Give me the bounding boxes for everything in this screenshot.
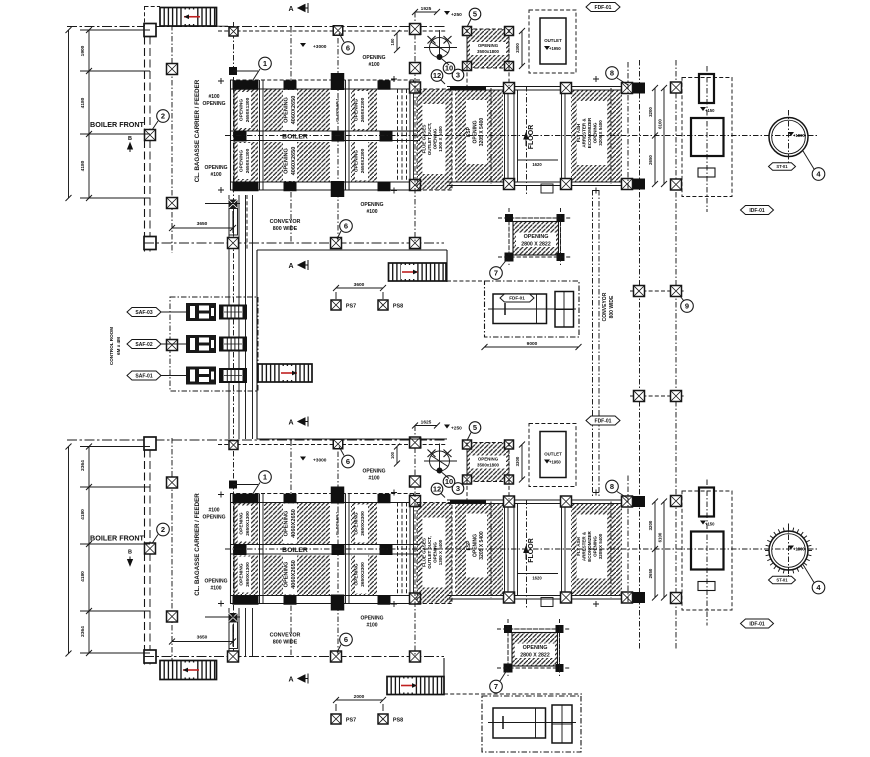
- svg-text:BOILER FRONT: BOILER FRONT: [90, 534, 145, 543]
- label flue gases outlet duct: [423, 104, 446, 174]
- svg-text:4060X2650: 4060X2650: [291, 96, 297, 125]
- dimension 3300: [521, 31, 523, 66]
- svg-text:ARRESTER &: ARRESTER &: [582, 118, 587, 148]
- column chain x338: [333, 26, 343, 36]
- label opening 2650x1300 upper: [238, 506, 251, 542]
- svg-text:CONVEYOR: CONVEYOR: [270, 219, 301, 225]
- hatch cell 2650x1300 lower: [234, 142, 258, 182]
- svg-text:800 WIDE: 800 WIDE: [609, 295, 615, 318]
- label FDF-01 hexagon: [586, 3, 620, 12]
- dimension chain left 1900/4180/4180: [88, 30, 90, 198]
- wire bottom boundary step: [443, 658, 445, 694]
- node grid bubble 1: [253, 69, 260, 80]
- wire opening 2800 stubs lower: [507, 619, 509, 676]
- wire grid line x338: [337, 441, 339, 657]
- svg-text:3300: 3300: [515, 43, 520, 53]
- svg-text:2650X2300: 2650X2300: [360, 511, 366, 536]
- svg-text:OPENING: OPENING: [239, 512, 245, 534]
- column W1 left-top: [144, 24, 156, 37]
- hatch cell 2650x1300 upper: [234, 503, 258, 544]
- svg-text:3200: 3200: [648, 520, 653, 530]
- svg-text:FLY ASH: FLY ASH: [576, 124, 581, 143]
- svg-text:#100: #100: [366, 623, 377, 629]
- svg-text:+150: +150: [705, 522, 715, 527]
- hatch cell 2650x1300 lower: [234, 556, 258, 596]
- column X x415 fan bottom: [410, 63, 421, 74]
- node level +150: [700, 521, 706, 525]
- bagasse chute rect: [229, 622, 238, 649]
- column conveyor row x233: [228, 238, 239, 249]
- column W2 left-bottom: [144, 237, 156, 250]
- column X end top a: [622, 496, 633, 507]
- node level mark +3000: [300, 43, 306, 47]
- wire conveyor rails x229/x239: [228, 195, 230, 439]
- svg-text:OPENING: OPENING: [360, 616, 383, 622]
- svg-text:8: 8: [610, 482, 614, 491]
- label opening 4060x2650 lower: [283, 555, 297, 595]
- wire bagasse building line left lower: [145, 438, 151, 666]
- columns opening 2800 corners upper: [505, 214, 513, 222]
- hatch cell 2650x2300 lower: [351, 142, 377, 182]
- svg-text:4180: 4180: [80, 160, 86, 171]
- FDF fan block upper: [485, 281, 580, 337]
- svg-text:3205 X 5400: 3205 X 5400: [479, 531, 485, 560]
- svg-text:A: A: [288, 263, 293, 270]
- wire opening 2800 stubs upper: [508, 208, 510, 265]
- node grid bubbles 12 3 10: [441, 80, 445, 84]
- svg-text:+1950: +1950: [549, 460, 561, 465]
- dimension 3650: [172, 641, 233, 643]
- svg-text:4180: 4180: [80, 571, 86, 582]
- beam vertical x514-517 floor left: [513, 90, 515, 182]
- svg-text:OPENING: OPENING: [354, 512, 360, 534]
- svg-text:6: 6: [346, 457, 350, 466]
- label +1800: [788, 132, 794, 136]
- column X floor left bottom: [504, 179, 515, 190]
- node level +250: [444, 425, 450, 429]
- column X floor left bottom: [504, 592, 515, 603]
- column grid-2 boiler front: [145, 543, 156, 554]
- wire floor boundary bottom y439: [257, 438, 447, 440]
- label FDF-01 hexagon: [586, 416, 620, 425]
- svg-text:#100: #100: [210, 586, 221, 592]
- svg-text:2650X1300: 2650X1300: [245, 562, 251, 587]
- svg-text:2: 2: [161, 112, 165, 121]
- svg-text:100: 100: [390, 38, 395, 46]
- svg-text:ARRESTER &: ARRESTER &: [582, 531, 587, 561]
- node grid bubble 8: [617, 78, 628, 85]
- label opening 4060x2650 upper: [283, 90, 297, 130]
- svg-text:CL BOILER 1: CL BOILER 1: [336, 512, 340, 536]
- column end bottom b: [633, 592, 645, 603]
- hatch opening 3500x1800: [467, 29, 509, 68]
- svg-text:2650X2300: 2650X2300: [360, 97, 366, 122]
- svg-text:+1950: +1950: [549, 46, 561, 51]
- svg-text:IDF-01: IDF-01: [749, 208, 765, 214]
- svg-text:1620: 1620: [532, 162, 542, 167]
- label FDF-01 in block: [500, 294, 534, 302]
- svg-text:2800 X 2822: 2800 X 2822: [521, 242, 551, 248]
- node grid bubble 6 top: [339, 447, 344, 456]
- label SAF-01 hexagon: [127, 371, 161, 380]
- svg-text:3205 X 5400: 3205 X 5400: [598, 120, 603, 146]
- svg-text:OPENING: OPENING: [239, 563, 245, 585]
- svg-text:CONVEYOR: CONVEYOR: [270, 633, 301, 639]
- label opening 2650x1300 lower: [238, 143, 251, 179]
- column conveyor row x336: [331, 238, 342, 249]
- equipment enclosure dashed: [682, 78, 732, 197]
- beam vertical x411: [409, 80, 411, 190]
- node grid bubble 4: [803, 565, 814, 583]
- svg-text:FLOOR: FLOOR: [528, 538, 535, 563]
- wire grid line x641: [639, 60, 641, 650]
- beam vertical x505-508: [504, 500, 506, 600]
- boiler unit 2 (bottom): [66, 416, 825, 684]
- svg-text:OPENING: OPENING: [284, 511, 290, 537]
- wire opening stubs: [466, 29, 468, 86]
- label SAF-03 hexagon: [127, 308, 161, 317]
- svg-text:BOILER: BOILER: [282, 547, 308, 554]
- column X floor right top: [561, 496, 572, 507]
- hatch flue gases outlet duct: [417, 89, 452, 190]
- svg-text:+1800: +1800: [793, 547, 805, 552]
- svg-text:6: 6: [344, 635, 348, 644]
- label fly ash economizer: [577, 101, 607, 165]
- screw feeder SAF-01: [220, 369, 246, 382]
- column X floor left top: [504, 83, 515, 94]
- svg-text:PS7: PS7: [346, 718, 356, 724]
- columns grid x639/x676 row y396: [630, 395, 685, 397]
- wire feeder rails x245/x252: [245, 195, 247, 439]
- wire grid line x676: [675, 60, 677, 650]
- column X right of left section bottom: [410, 593, 421, 604]
- stair bottom-mid: [387, 677, 444, 695]
- svg-text:+3000: +3000: [313, 44, 327, 50]
- svg-text:+250: +250: [451, 12, 462, 18]
- column X floor right top: [561, 83, 572, 94]
- column X x415 fan top: [410, 437, 421, 448]
- column X end bottom a: [622, 592, 633, 603]
- label flue gases outlet duct: [423, 518, 446, 588]
- column X-172a: [167, 477, 178, 488]
- svg-text:4060X2650: 4060X2650: [291, 147, 297, 176]
- svg-text:3: 3: [456, 484, 460, 493]
- wire bagasse building line left: [145, 25, 151, 253]
- label opening 2800x2822 upper: [516, 233, 556, 248]
- beam vertical x411: [409, 494, 411, 604]
- column X floor left top: [504, 496, 515, 507]
- svg-text:9000: 9000: [527, 341, 538, 347]
- wire grid line x291: [290, 441, 292, 657]
- dimension chain left 2364/4180/4180/2364: [88, 447, 90, 654]
- label opening 3500x1800: [470, 456, 506, 469]
- label +1800: [788, 546, 794, 550]
- svg-text:OPENING: OPENING: [204, 579, 227, 585]
- fan symbol: [430, 451, 450, 471]
- node grid bubble 5: [467, 433, 471, 441]
- columns opening corners: [463, 27, 472, 36]
- node grid bubble 7 upper: [500, 258, 508, 268]
- svg-text:A: A: [288, 677, 293, 684]
- svg-text:OPENING: OPENING: [478, 43, 499, 48]
- beam dashed cell x393-410: [397, 89, 399, 182]
- wire grid line x338: [337, 27, 339, 243]
- svg-text:CL. BAGASSE CARRIER / FEEDER: CL. BAGASSE CARRIER / FEEDER: [194, 493, 201, 596]
- wire conveyor row line: [144, 242, 444, 244]
- svg-text:OPENING: OPENING: [593, 122, 598, 143]
- machine block SAF-03: [186, 303, 216, 321]
- wire head col row dash line: [218, 444, 447, 446]
- svg-text:4180: 4180: [80, 97, 86, 108]
- control room dashed outline: [170, 297, 258, 391]
- wire grid line x611: [610, 88, 612, 184]
- column small bagasse x233 row3: [229, 200, 238, 209]
- dimension 1620 floor: [518, 573, 559, 575]
- dimension 3200/2650 right: [654, 88, 656, 184]
- wire grid x415 upper stub: [414, 12, 416, 243]
- svg-text:6M x 4M: 6M x 4M: [116, 337, 121, 355]
- svg-text:#100: #100: [366, 209, 377, 215]
- wire head chain line: [67, 439, 447, 441]
- svg-text:4060X2650: 4060X2650: [291, 560, 297, 589]
- svg-text:OPENING: OPENING: [239, 150, 245, 172]
- equipment enclosure dashed: [682, 491, 732, 610]
- hatch opening 2800x2822 upper: [509, 218, 561, 257]
- svg-text:CONTROL ROOM: CONTROL ROOM: [109, 327, 114, 365]
- wire grid line x611: [610, 502, 612, 598]
- svg-text:OPENING: OPENING: [202, 515, 225, 521]
- svg-text:12: 12: [433, 71, 441, 80]
- node grid bubbles 12 3 10: [441, 494, 445, 498]
- column X floor right bottom: [561, 179, 572, 190]
- svg-text:OPENING: OPENING: [360, 202, 383, 208]
- hatch cell 2650x1300 upper: [234, 90, 258, 131]
- svg-text:1: 1: [263, 473, 267, 482]
- dimension 1925: [415, 425, 437, 427]
- svg-text:OPENING: OPENING: [354, 99, 360, 121]
- svg-text:BOILER: BOILER: [282, 134, 308, 141]
- hatch cell 2650x2300 lower: [351, 556, 377, 596]
- hatch opening 2800x2822 lower: [508, 629, 560, 668]
- pile PS8 lower: [378, 714, 388, 724]
- column X grid676 bottom: [671, 593, 682, 604]
- label BOILER: [274, 132, 316, 141]
- svg-text:CL BOILER 1: CL BOILER 1: [336, 98, 340, 122]
- svg-text:2364: 2364: [80, 460, 86, 471]
- svg-text:1900: 1900: [80, 45, 86, 56]
- column X right of left section top: [410, 82, 421, 93]
- svg-text:8: 8: [610, 69, 614, 78]
- svg-text:1300 X 5400: 1300 X 5400: [438, 126, 443, 152]
- column chain x416: [411, 25, 421, 35]
- svg-text:2650X2300: 2650X2300: [360, 562, 366, 587]
- wire grid line x491: [490, 88, 492, 184]
- label ESP opening: [466, 100, 487, 164]
- label opening 3500x1800: [470, 42, 506, 55]
- column row mid: [234, 131, 247, 142]
- node grid bubble 2: [152, 121, 158, 130]
- equipment stack rect: [699, 488, 714, 517]
- stair bottom-left: [160, 661, 217, 680]
- column small bagasse x233 row3: [229, 613, 238, 622]
- svg-text:FDF-01: FDF-01: [509, 296, 525, 301]
- wire grid line x172 lower: [171, 438, 173, 666]
- dimension overall left line: [68, 447, 70, 654]
- wire dash under stair S4: [447, 280, 484, 282]
- svg-text:2650X1300: 2650X1300: [245, 148, 251, 173]
- column conveyor row x415: [410, 238, 421, 249]
- svg-text:OPENING: OPENING: [433, 128, 438, 149]
- feeder line SAF-03: [158, 311, 186, 313]
- wire grid line x172 upper: [171, 25, 173, 253]
- svg-text:OPENING: OPENING: [354, 150, 360, 172]
- dimension 3300: [521, 445, 523, 480]
- svg-text:A: A: [288, 6, 293, 13]
- svg-text:3200: 3200: [648, 107, 653, 117]
- equipment duct square: [691, 532, 724, 570]
- svg-text:3650: 3650: [197, 635, 208, 641]
- fan symbol: [430, 38, 450, 58]
- svg-text:OPENING: OPENING: [523, 645, 548, 651]
- svg-text:3500x1800: 3500x1800: [477, 49, 500, 54]
- node plus marks: [218, 78, 224, 84]
- svg-text:+150: +150: [705, 108, 715, 113]
- wire head chain line: [67, 26, 447, 28]
- dimension 6100 right: [663, 502, 665, 598]
- column chain x233: [229, 27, 238, 36]
- hatch cell 4060x2650 lower: [264, 556, 330, 596]
- beam vertical x261: [259, 494, 261, 604]
- column X x415 fan bottom: [410, 476, 421, 487]
- wire bottom boundary y694: [444, 693, 582, 695]
- svg-text:OPENING: OPENING: [284, 148, 290, 174]
- svg-text:OPENING: OPENING: [524, 234, 549, 240]
- column conveyor row x415: [410, 651, 421, 662]
- svg-text:3600: 3600: [354, 282, 365, 288]
- svg-text:6100: 6100: [658, 532, 663, 542]
- svg-text:FLOOR: FLOOR: [528, 125, 535, 150]
- wire grid x415 upper stub: [414, 426, 416, 657]
- boiler outline right section: [447, 499, 643, 501]
- wire head col row dash line: [218, 30, 447, 32]
- svg-text:6: 6: [346, 44, 350, 53]
- feeder line SAF-02: [158, 343, 186, 345]
- feeder line SAF-01: [158, 375, 186, 377]
- dimension 2000 piles lower: [336, 699, 383, 701]
- node grid bubble 9: [680, 296, 684, 301]
- wire grid x628 stub: [627, 62, 629, 190]
- label opening 4060x2650 lower: [283, 141, 297, 181]
- hatch cell 2650x2300 upper: [351, 503, 377, 544]
- label SAF-02 hexagon: [127, 340, 161, 349]
- column X grid676 top: [671, 82, 682, 93]
- boiler outline left section: [230, 80, 232, 190]
- svg-text:OUTLET DUCT,: OUTLET DUCT,: [427, 536, 432, 569]
- wire grid line x526: [526, 86, 528, 194]
- wire boiler centerline: [225, 548, 818, 550]
- wire floor boundary left x257: [256, 250, 258, 439]
- svg-text:6: 6: [344, 222, 348, 231]
- pile PS8 upper: [378, 300, 388, 310]
- wire floor boundary step x447: [446, 250, 448, 282]
- svg-text:12: 12: [433, 485, 441, 494]
- svg-text:SAF-03: SAF-03: [135, 310, 152, 316]
- svg-text:#100: #100: [208, 94, 219, 100]
- svg-text:#100: #100: [368, 476, 379, 482]
- dimension 100 vertical: [396, 447, 398, 464]
- column end top b: [633, 496, 645, 507]
- svg-text:1300 X 5400: 1300 X 5400: [438, 539, 443, 565]
- hatch cell 2650x2300 upper: [351, 90, 377, 131]
- machine block SAF-02: [186, 335, 216, 353]
- dimension 9000: [485, 346, 579, 348]
- svg-text:FDF-01: FDF-01: [595, 5, 612, 11]
- dimension 3600 piles upper: [336, 287, 383, 289]
- svg-text:FLY ASH: FLY ASH: [576, 537, 581, 556]
- chimney circle: [769, 531, 808, 570]
- svg-text:2: 2: [161, 525, 165, 534]
- svg-text:3300: 3300: [515, 456, 520, 466]
- label ST-01 hexagon: [769, 163, 796, 171]
- wire conveyor centerline x233: [233, 22, 235, 660]
- column row top: [233, 80, 246, 90]
- svg-text:2800 X 2822: 2800 X 2822: [520, 653, 550, 659]
- dimension 1925: [415, 11, 437, 13]
- node grid bubble 7 lower: [500, 670, 507, 681]
- pile PS7 upper: [331, 300, 341, 310]
- svg-text:OPENING: OPENING: [284, 97, 290, 123]
- svg-text:OUTLET: OUTLET: [544, 38, 562, 43]
- hatch fly ash economizer opening: [571, 504, 622, 596]
- svg-text:OPENING: OPENING: [473, 120, 479, 143]
- screw feeder SAF-03: [220, 306, 246, 319]
- node grid bubble 1: [253, 483, 260, 494]
- svg-text:OPENING: OPENING: [354, 563, 360, 585]
- pile PS7 lower: [331, 714, 341, 724]
- svg-text:CONVEYOR: CONVEYOR: [602, 292, 608, 321]
- column conveyor row x336: [331, 651, 342, 662]
- equipment small box: [698, 168, 715, 177]
- screw feeder SAF-02: [220, 338, 246, 351]
- label opening 2650x1300 upper: [238, 92, 251, 128]
- column X end bottom a: [622, 179, 633, 190]
- wire floor boundary top y250: [257, 249, 447, 251]
- svg-text:+3000: +3000: [313, 458, 327, 464]
- svg-text:3500x1800: 3500x1800: [477, 463, 500, 468]
- column row mid: [234, 544, 247, 555]
- label opening 4060x2650 upper: [283, 504, 297, 544]
- svg-text:1620: 1620: [532, 576, 542, 581]
- svg-text:2650: 2650: [648, 155, 653, 165]
- svg-text:6100: 6100: [658, 119, 663, 129]
- svg-text:OPENING: OPENING: [478, 457, 499, 462]
- node grid bubble 6 lower: [337, 231, 341, 239]
- svg-text:+250: +250: [451, 426, 462, 432]
- svg-text:7: 7: [494, 269, 498, 278]
- chimney circle: [769, 118, 808, 157]
- svg-text:OPENING: OPENING: [593, 536, 598, 557]
- column X right of left section bottom: [410, 180, 421, 191]
- column X-172a: [167, 64, 178, 75]
- equipment small box: [698, 582, 715, 591]
- wire opening stubs: [466, 443, 468, 500]
- svg-text:100: 100: [390, 451, 395, 459]
- svg-text:OPENING: OPENING: [362, 55, 385, 61]
- label IDF-01 hexagon: [741, 619, 774, 628]
- node plus marks: [218, 492, 224, 498]
- column grid-2 boiler front: [145, 130, 156, 141]
- machine block SAF-01: [186, 367, 216, 385]
